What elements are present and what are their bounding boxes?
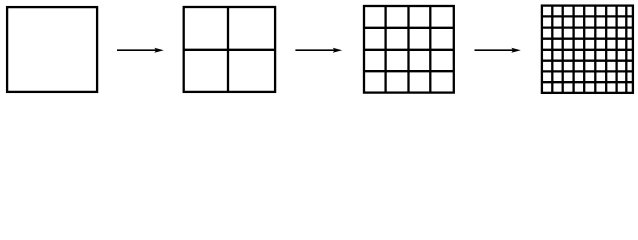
arrow 2 (295, 48, 342, 53)
square 4 (8x8 grid with narrow last column) (542, 6, 633, 93)
arrow 1 (117, 48, 164, 53)
square 2 (2x2 grid) (184, 7, 275, 92)
wire: vertical divider (227, 7, 229, 92)
arrow 3 (475, 48, 521, 53)
square 1 (coarse 1x1 cell) (7, 7, 97, 92)
square 3 (4x4 grid) (364, 6, 454, 93)
wire: horizontal divider (184, 49, 275, 51)
